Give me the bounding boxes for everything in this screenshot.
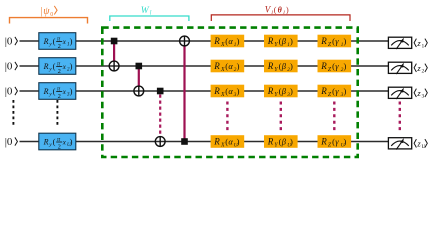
meter M4: [388, 138, 411, 150]
svg-text:β: β: [281, 61, 287, 71]
meter M2: [388, 62, 411, 74]
ellipsis dots Ry gate column: [56, 100, 58, 128]
svg-text:R: R: [320, 61, 327, 71]
gate RZ(γU) q4: [318, 135, 352, 148]
svg-text:0: 0: [50, 12, 53, 18]
svg-text:|0: |0: [5, 136, 13, 148]
gate Ry(pi/2 x3) q3: [39, 83, 76, 100]
svg-text:): ): [70, 36, 73, 46]
svg-text:R: R: [267, 137, 274, 147]
svg-text:): ): [290, 61, 293, 71]
gate RX(α3) q3: [211, 85, 245, 98]
svg-text:R: R: [43, 137, 49, 146]
gate RZ(γ3) q3: [318, 85, 352, 98]
CNOT1 control q1: [111, 38, 118, 45]
CNOT4 control q4: [181, 138, 188, 145]
CNOT1 connector: [113, 41, 115, 61]
svg-text:R: R: [213, 36, 220, 46]
svg-text:(: (: [53, 36, 56, 46]
svg-text:(: (: [53, 136, 56, 146]
gate RX(αU) q4: [211, 135, 245, 148]
ellipsis dashed (continuation): [333, 102, 335, 132]
svg-text:): ): [344, 36, 347, 46]
svg-text:): ): [70, 61, 73, 71]
wire q1: [20, 40, 389, 42]
svg-text:|: |: [40, 6, 42, 17]
svg-text:α: α: [228, 61, 233, 71]
gate RX(α1) q1: [211, 35, 245, 48]
CNOT4 target q1: [180, 36, 190, 46]
svg-text:R: R: [320, 36, 327, 46]
svg-text:α: α: [228, 36, 233, 46]
wire q2: [20, 65, 389, 67]
gate Ry(pi/2 x1) q1: [39, 33, 76, 50]
CNOT3 target q4: [155, 137, 165, 147]
bracket W_l (entangling layer label): [110, 6, 189, 21]
ellipsis dashed (continuation): [226, 102, 228, 132]
svg-text:|0: |0: [5, 36, 13, 48]
svg-text:): ): [344, 86, 347, 96]
gate RY(β3) q3: [264, 85, 298, 98]
svg-text:): ): [237, 137, 240, 147]
label <z1> q1: [414, 38, 427, 50]
svg-text:(: (: [274, 5, 277, 14]
svg-text:β: β: [281, 137, 287, 147]
svg-text:β: β: [281, 36, 287, 46]
svg-text:R: R: [267, 61, 274, 71]
svg-text:ψ: ψ: [43, 6, 50, 17]
svg-text:): ): [237, 61, 240, 71]
svg-text:): ): [237, 36, 240, 46]
svg-text:(: (: [53, 61, 56, 71]
svg-text:R: R: [43, 62, 49, 71]
CNOT3 control q3: [157, 88, 164, 95]
wire q4: [20, 141, 389, 143]
meter M3: [388, 87, 411, 99]
svg-text:): ): [70, 136, 73, 146]
svg-text:2: 2: [58, 43, 61, 50]
svg-text:R: R: [213, 86, 220, 96]
wire q3: [20, 90, 389, 92]
ellipsis dots ket column: [12, 100, 14, 128]
CNOT2 control q2: [136, 63, 143, 70]
gate RX(α2) q2: [211, 60, 245, 73]
svg-text:): ): [344, 61, 347, 71]
gate RY(βU) q4: [264, 135, 298, 148]
gate RY(β2) q2: [264, 60, 298, 73]
svg-text:R: R: [213, 61, 220, 71]
CNOT1 target q2: [109, 61, 119, 71]
svg-text:2: 2: [58, 68, 61, 75]
svg-text:R: R: [43, 87, 49, 96]
svg-text:): ): [290, 36, 293, 46]
svg-text:2: 2: [58, 93, 61, 100]
svg-text:): ): [70, 86, 73, 96]
gate Ry(pi/2 x2) q2: [39, 58, 76, 75]
meter M1: [388, 37, 411, 49]
svg-text:R: R: [213, 137, 220, 147]
svg-text:): ): [237, 86, 240, 96]
ellipsis dashed (continuation): [280, 102, 282, 132]
dashed box (trainable block W_l + V_l): [102, 28, 357, 157]
bracket |psi0> (state-prep label): [10, 6, 88, 24]
svg-text:2: 2: [422, 69, 425, 75]
svg-text:R: R: [320, 137, 327, 147]
svg-text:W: W: [141, 6, 150, 16]
svg-text:|0: |0: [5, 61, 13, 73]
label <z3> q3: [414, 88, 427, 100]
svg-text:2: 2: [58, 144, 61, 151]
svg-text:(: (: [53, 86, 56, 96]
gate RZ(γ2) q2: [318, 60, 352, 73]
label <z2> q2: [414, 63, 427, 75]
bracket V_l(theta_l) (variational layer label): [211, 4, 350, 21]
svg-text:): ): [290, 137, 293, 147]
CNOT4 connector: [183, 46, 185, 142]
svg-text:): ): [344, 137, 347, 147]
CNOT3 connector (dashed): [159, 95, 161, 137]
svg-text:R: R: [43, 37, 49, 46]
svg-text:α: α: [228, 86, 233, 96]
gate RY(β1) q1: [264, 35, 298, 48]
gate RZ(γ1) q1: [318, 35, 352, 48]
ellipsis dashed (continuation): [399, 102, 401, 132]
CNOT2 target q3: [134, 86, 144, 96]
label <zU> q4: [414, 138, 427, 150]
ket |0> q1: [5, 36, 18, 48]
svg-text:): ): [286, 5, 289, 14]
gate Ry(pi/2 xU) q4: [39, 133, 76, 150]
svg-text:β: β: [281, 86, 287, 96]
ket |0> q2: [5, 61, 18, 73]
ket |0> q4: [5, 136, 18, 148]
svg-text:α: α: [228, 137, 233, 147]
svg-text:R: R: [267, 36, 274, 46]
ket |0> q3: [5, 86, 18, 98]
CNOT2 connector: [138, 66, 140, 86]
svg-text:): ): [290, 86, 293, 96]
svg-text:R: R: [320, 86, 327, 96]
svg-text:R: R: [267, 86, 274, 96]
svg-text:3: 3: [422, 94, 425, 100]
svg-text:|0: |0: [5, 86, 13, 98]
svg-text:1: 1: [422, 44, 425, 50]
